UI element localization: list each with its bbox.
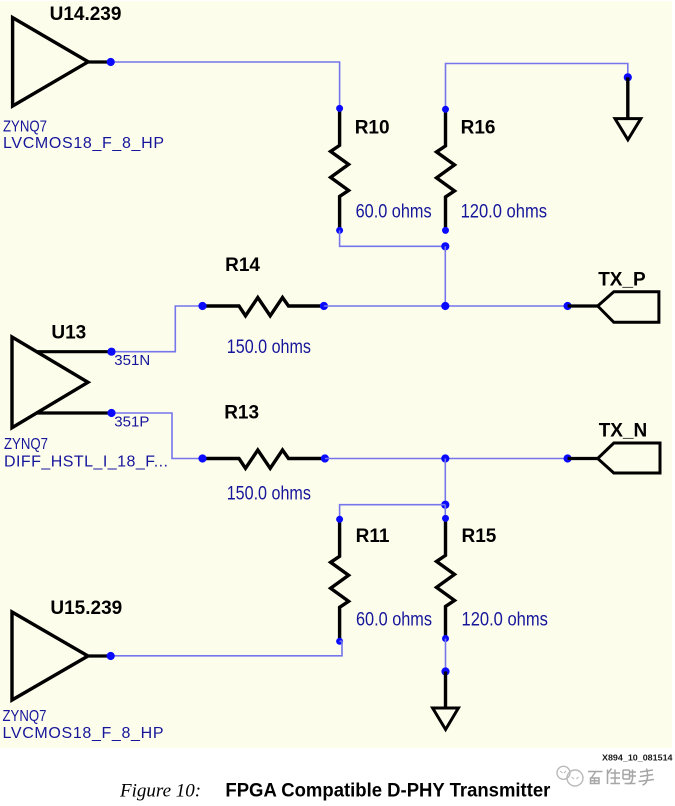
- wire U15 output to R11 bottom: [111, 641, 342, 656]
- svg-text:ZYNQ7: ZYNQ7: [4, 436, 48, 453]
- svg-text:R14: R14: [225, 255, 260, 276]
- svg-text:U15.239: U15.239: [50, 598, 122, 619]
- wire R14 to TX_P port: [324, 305, 568, 307]
- resistor R11: [331, 519, 349, 641]
- svg-text:TX_P: TX_P: [598, 269, 646, 290]
- wire R13 to TX_N port: [325, 458, 568, 460]
- node R16 top: [442, 106, 449, 113]
- svg-text:FPGA Compatible D-PHY Transmit: FPGA Compatible D-PHY Transmitter: [225, 781, 551, 802]
- node R11 top: [336, 516, 343, 523]
- svg-text:R16: R16: [461, 118, 496, 139]
- node R11 bottom: [336, 638, 343, 645]
- resistor R16: [437, 109, 455, 230]
- wire 351N to R14: [112, 306, 203, 352]
- wire U14 output to R10 top: [111, 62, 340, 108]
- node R10 top: [336, 105, 343, 112]
- buffer U14: [13, 18, 111, 106]
- svg-text:120.0 ohms: 120.0 ohms: [462, 610, 548, 631]
- wire junction down to TX_P rail: [444, 246, 446, 306]
- svg-text:351P: 351P: [114, 413, 149, 430]
- svg-text:Figure 10:: Figure 10:: [119, 781, 201, 802]
- svg-text:TX_N: TX_N: [599, 421, 648, 442]
- wire junction to R15 top: [444, 505, 446, 519]
- svg-text:120.0 ohms: 120.0 ohms: [461, 202, 547, 223]
- svg-text:LVCMOS18_F_8_HP: LVCMOS18_F_8_HP: [3, 725, 164, 742]
- svg-text:U13: U13: [51, 323, 86, 344]
- node ground bottom: [441, 667, 449, 675]
- svg-text:R13: R13: [224, 403, 259, 424]
- watermark logo: [557, 766, 583, 786]
- svg-text:X894_10_081514: X894_10_081514: [602, 753, 673, 763]
- svg-text:150.0 ohms: 150.0 ohms: [227, 337, 311, 358]
- svg-text:U14.239: U14.239: [50, 4, 122, 25]
- svg-text:R11: R11: [356, 526, 390, 547]
- node R13 left: [198, 454, 206, 462]
- node TX_P port: [564, 302, 572, 310]
- resistor R14: [203, 298, 324, 316]
- node divider junction: [441, 242, 449, 250]
- ground (bottom): [433, 672, 459, 730]
- node TX_N rail junction: [441, 454, 449, 462]
- svg-text:R15: R15: [462, 526, 497, 547]
- buffer U13: [12, 337, 112, 428]
- svg-text:351N: 351N: [114, 352, 150, 369]
- svg-text:R10: R10: [355, 118, 390, 139]
- node TX_N port: [564, 454, 572, 462]
- node terminator junction: [441, 501, 449, 509]
- svg-text:ZYNQ7: ZYNQ7: [3, 708, 47, 725]
- node R16 bottom: [442, 227, 449, 234]
- wire TX_N junction down to terminator: [444, 459, 446, 505]
- node U15 output: [107, 652, 115, 660]
- svg-text:LVCMOS18_F_8_HP: LVCMOS18_F_8_HP: [3, 135, 164, 152]
- node R15 top: [442, 515, 449, 522]
- node TX_P rail junction: [441, 302, 449, 310]
- wire R16 top to ground: [446, 64, 628, 110]
- buffer U15: [12, 612, 111, 700]
- ground (top): [615, 77, 641, 140]
- node R10 bottom: [336, 227, 343, 234]
- wire R15 bottom to ground node: [445, 639, 447, 672]
- svg-text:60.0 ohms: 60.0 ohms: [356, 610, 432, 631]
- wire junction to R11 top: [340, 505, 446, 520]
- svg-text:150.0 ohms: 150.0 ohms: [227, 483, 311, 504]
- node R14 left: [198, 302, 206, 310]
- node 351N: [107, 348, 115, 356]
- wire R10 bottom to R16 column: [340, 230, 446, 246]
- port TX_P: [568, 292, 659, 323]
- node 351P: [107, 409, 115, 417]
- svg-text:60.0 ohms: 60.0 ohms: [356, 202, 432, 223]
- watermark text 硬件助手: [588, 769, 654, 786]
- svg-text:ZYNQ7: ZYNQ7: [3, 118, 47, 135]
- resistor R10: [331, 108, 349, 230]
- svg-text:DIFF_HSTL_I_18_F...: DIFF_HSTL_I_18_F...: [4, 453, 168, 470]
- node U14 output: [107, 58, 115, 66]
- node ground top: [624, 73, 632, 81]
- node R13 right: [321, 454, 329, 462]
- node R14 right: [320, 302, 328, 310]
- resistor R13: [203, 450, 325, 468]
- port TX_N: [568, 443, 660, 473]
- resistor R15: [437, 518, 455, 638]
- node R15 bottom: [442, 635, 449, 642]
- wire 351P to R13: [112, 413, 203, 459]
